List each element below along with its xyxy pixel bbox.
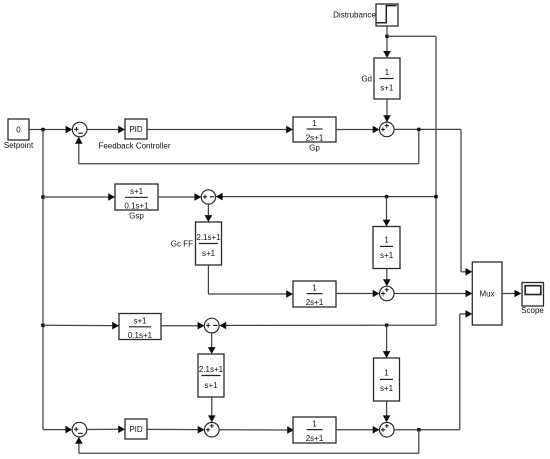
svg-text:Gd: Gd [361,75,372,84]
svg-text:Scope: Scope [521,306,544,315]
svg-text:0.1s+1: 0.1s+1 [124,202,149,211]
svg-text:2s+1: 2s+1 [306,298,324,307]
svg-text:Mux: Mux [479,289,494,298]
step source Distrubance [333,4,398,26]
wire Gp to sum2 [336,126,380,134]
Scope block [521,283,544,316]
svg-text:Feedback Controller: Feedback Controller [98,141,170,150]
wire PID to Gp [147,126,293,134]
svg-text:s+1: s+1 [202,249,216,258]
PID controller 2 [125,419,147,439]
transfer Fcn 2.1s+1/s+1 lower [198,354,224,397]
svg-text:s+1: s+1 [380,84,394,93]
node setpoint branch row4 [41,324,44,327]
svg-text:Gsp: Gsp [129,212,144,221]
constant block 0 Setpoint [4,119,34,150]
svg-text:Gp: Gp [309,144,320,153]
sum S8 [72,422,87,437]
svg-text:s+1: s+1 [133,316,147,325]
wire sum1 to PID [87,126,125,134]
svg-text:PID: PID [129,125,143,134]
sum S1 [72,122,87,137]
svg-text:PID: PID [129,425,143,434]
node disturbance branch [385,35,388,38]
wire sum8 to PID2 [87,426,125,434]
sum S6 [204,318,219,333]
node trunk row2 [434,195,437,198]
svg-text:s+1: s+1 [204,381,218,390]
wire Gd to sum2 [383,99,391,122]
wire sum2 to Mux input1 [394,129,472,275]
transfer Fcn 1/(s+1) lower [374,358,400,401]
wire 1/(s+1) upper to sum5 [383,269,391,287]
wire 2.1s+1/s+1 lower to sum9 [208,397,216,422]
transfer Fcn s+1/0.1s+1 lower [119,314,161,341]
wire PID2 to sum9 [147,426,205,434]
transfer Fcn Gp4 1/(2s+1) [293,417,336,443]
transfer Fcn Gsp [115,184,158,221]
svg-text:1: 1 [385,68,390,77]
svg-text:Distrubance: Distrubance [333,11,376,20]
sum S7 [380,422,395,437]
sum S3 [201,190,215,204]
svg-text:Setpoint: Setpoint [4,141,34,150]
wire 1/(s+1) lower to sum7 [383,401,391,422]
wire branch down to 1/(s+1) upper [383,197,391,227]
transfer Fcn Gp3 1/(2s+1) [293,281,336,307]
wire feedback2 to sum8 [75,430,419,454]
wire Gsp to sum3 [158,193,201,201]
svg-text:0: 0 [16,126,21,135]
wire step to Gd [383,26,391,58]
wire block to sum6 [161,322,204,330]
svg-text:2s+1: 2s+1 [306,434,324,443]
PID controller block [98,119,170,150]
wire feedback1 to sum1 [75,129,419,163]
wire sum5 to Mux input2 [394,290,472,298]
sum S9 [205,422,220,437]
node setpoint branch [41,128,44,131]
svg-text:2s+1: 2s+1 [306,134,324,143]
wire from disturbance trunk to sum3 right input [216,193,436,201]
node setpoint branch row2 [41,195,44,198]
wire Gp3 to sum5 [336,290,380,298]
svg-text:1: 1 [384,369,389,378]
svg-text:1: 1 [312,419,317,428]
sum S5 [380,286,395,301]
wire Gp4 to sum7 [336,426,380,434]
wire setpoint to Gsp [43,193,115,201]
wire Gc FF to Gp3 [208,265,293,298]
sum S2 [380,122,395,137]
svg-text:2.1s+1: 2.1s+1 [196,233,221,242]
Mux block [472,262,502,325]
transfer Fcn 1/(s+1) upper [373,227,400,269]
wire setpoint to sum1 [29,126,72,134]
svg-text:1: 1 [312,283,317,292]
transfer Fcn Gd [361,58,400,99]
node branch to 1/(s+1) upper [385,195,388,198]
wire Mux to Scope [502,290,521,298]
svg-text:2.1s+1: 2.1s+1 [199,365,224,374]
svg-text:1: 1 [384,236,389,245]
wire sum3 down to Gc FF [205,204,213,222]
wire disturbance branch right and down [387,36,436,325]
wire sum7 to Mux input3 [394,310,472,430]
wire branch down to 1/(s+1) lower [383,325,391,358]
wire sum9 to Gp4 [219,426,294,434]
wire disturbance trunk to sum6 right input [219,322,436,330]
wire setpoint to s+1/0.1s+1 lower [43,322,119,330]
node feedback2 branch [417,428,420,431]
svg-text:Gc FF: Gc FF [171,240,193,249]
svg-text:0.1s+1: 0.1s+1 [128,331,153,340]
transfer Fcn Gc FF [171,222,222,265]
svg-text:s+1: s+1 [380,251,394,260]
svg-text:s+1: s+1 [380,384,394,393]
wire sum6 down to 2.1s+1/s+1 lower [208,333,216,354]
svg-text:1: 1 [312,119,317,128]
node feedback1 branch [417,128,420,131]
svg-text:s+1: s+1 [130,187,144,196]
wire setpoint trunk down to sum8 [43,130,72,434]
transfer Fcn Gp [293,117,336,153]
node branch to 1/(s+1) lower [385,324,388,327]
